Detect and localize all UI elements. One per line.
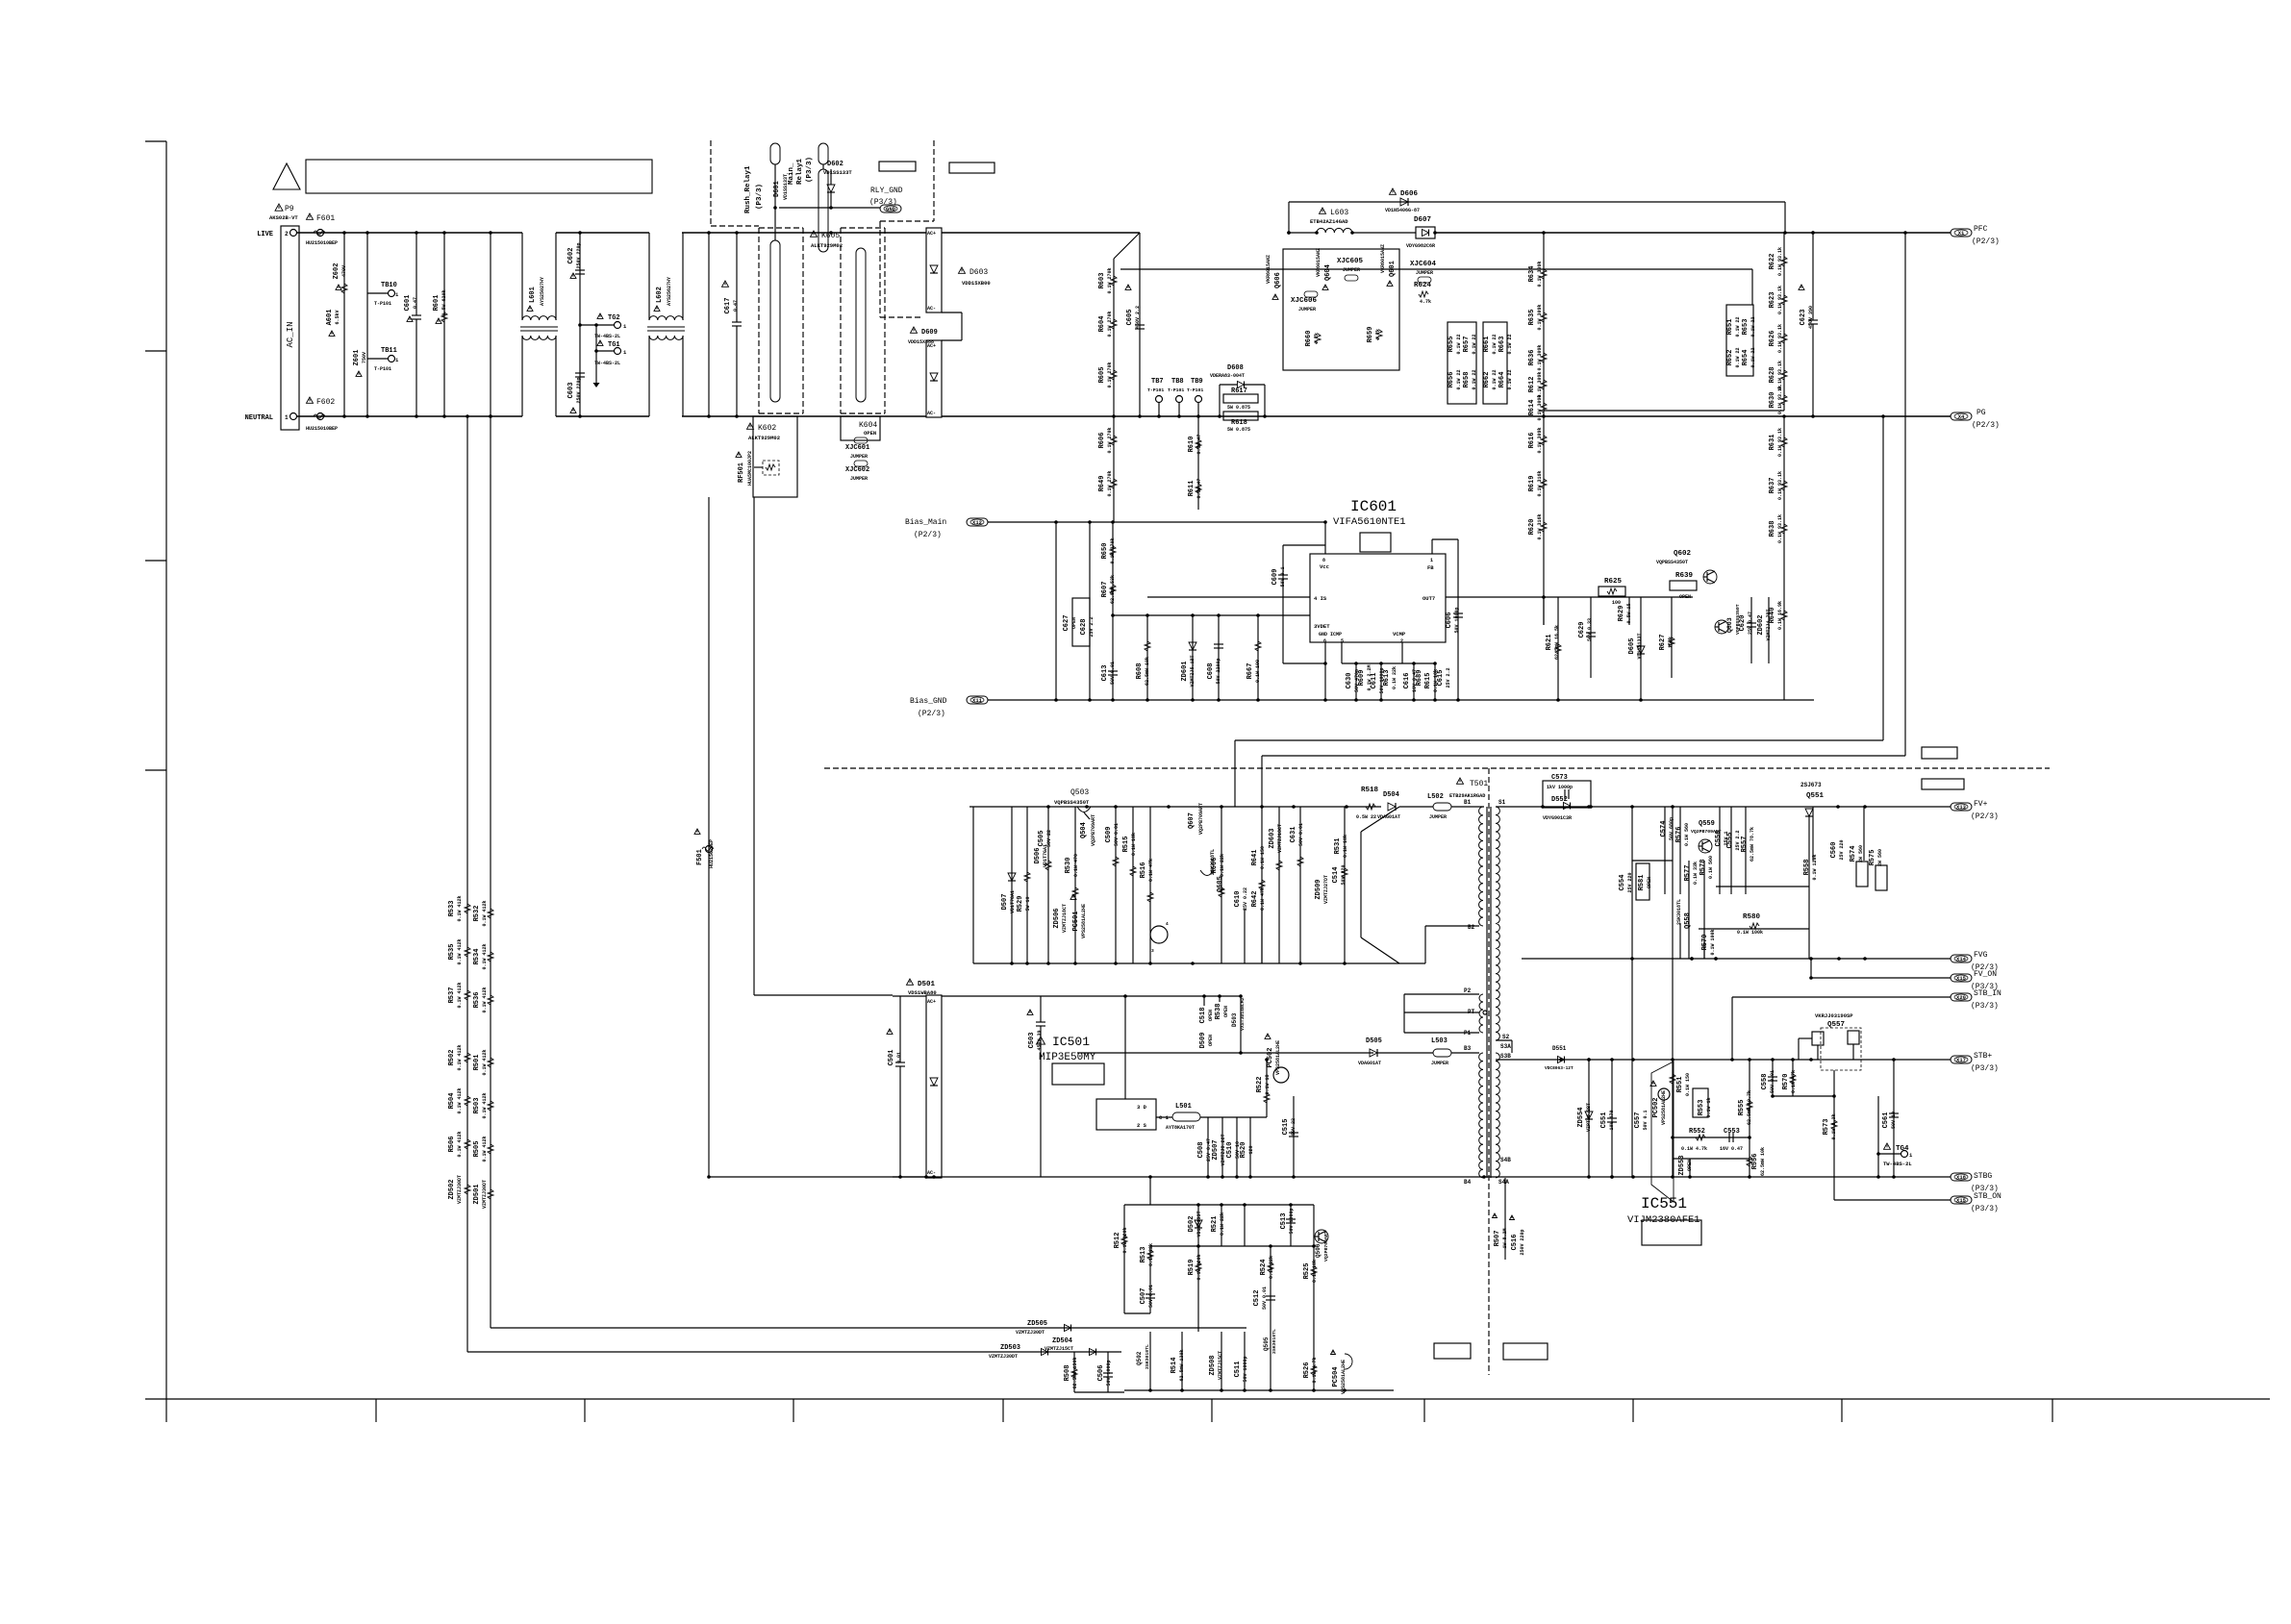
svg-text:A601: A601	[326, 310, 334, 326]
svg-text:ZD501: ZD501	[473, 1184, 481, 1204]
svg-text:0.1W 150: 0.1W 150	[1685, 1073, 1691, 1096]
svg-text:4 IS: 4 IS	[1314, 595, 1327, 602]
svg-text:0.1W 316k: 0.1W 316k	[1537, 470, 1543, 496]
svg-text:2SK3018TL: 2SK3018TL	[1676, 899, 1682, 925]
svg-text:R503: R503	[473, 1098, 481, 1114]
svg-text:ZD507: ZD507	[1212, 1139, 1220, 1160]
svg-text:Q601: Q601	[1389, 261, 1397, 277]
svg-text:VZPT26.2BT: VZPT26.2BT	[1586, 1103, 1592, 1132]
svg-text:25V 220: 25V 220	[1839, 839, 1845, 860]
svg-text:MIP3E50MY: MIP3E50MY	[1039, 1052, 1096, 1063]
svg-text:250V 220p: 250V 220p	[1520, 1229, 1525, 1255]
svg-text:R625: R625	[1604, 578, 1623, 586]
svg-text:50V 2200p: 50V 2200p	[1216, 658, 1221, 684]
svg-text:VQ2PB709ART: VQ2PB709ART	[1091, 814, 1096, 846]
svg-text:ETB42AZ14GAD: ETB42AZ14GAD	[1310, 218, 1348, 225]
svg-text:TB11: TB11	[381, 347, 397, 355]
svg-text:R609: R609	[1358, 670, 1366, 687]
svg-text:IC601: IC601	[1350, 498, 1397, 515]
svg-text:R652: R652	[1726, 350, 1734, 366]
svg-text:(P2/3): (P2/3)	[918, 710, 945, 718]
svg-text:0.1W 22: 0.1W 22	[1750, 347, 1756, 367]
svg-text:0.1W 47k: 0.1W 47k	[1260, 887, 1266, 911]
svg-text:C611: C611	[1371, 673, 1378, 689]
svg-text:R634: R634	[1528, 266, 1536, 283]
svg-text:STB+: STB+	[1974, 1052, 1992, 1061]
svg-text:50V 0.01: 50V 0.01	[1114, 823, 1120, 846]
svg-text:FVG: FVG	[1974, 951, 1988, 960]
svg-text:JUMPER: JUMPER	[1416, 270, 1433, 276]
svg-text:50V 220: 50V 220	[1341, 864, 1347, 885]
svg-text:R573: R573	[1823, 1119, 1830, 1136]
svg-text:X20: X20	[1956, 994, 1966, 1001]
svg-text:R557: R557	[1741, 837, 1749, 853]
svg-text:2SK3018TL: 2SK3018TL	[1271, 1329, 1277, 1354]
svg-text:R661: R661	[1483, 337, 1491, 353]
svg-text:R658: R658	[1463, 372, 1471, 388]
svg-text:F501: F501	[696, 849, 704, 865]
svg-text:R502: R502	[448, 1050, 456, 1066]
svg-text:50V 0.01: 50V 0.01	[1298, 823, 1304, 846]
svg-text:K604: K604	[859, 421, 877, 430]
svg-text:D507: D507	[1001, 894, 1009, 911]
svg-text:Q603: Q603	[1726, 617, 1733, 633]
svg-text:VD1T7GA1: VD1T7GA1	[1010, 890, 1016, 913]
svg-text:C507: C507	[1140, 1288, 1147, 1305]
svg-text:5W 0.875: 5W 0.875	[1227, 427, 1250, 433]
svg-text:AC_IN: AC_IN	[286, 321, 295, 347]
svg-text:0.1W 309k: 0.1W 309k	[1537, 261, 1543, 287]
svg-text:Main_: Main_	[788, 162, 795, 185]
svg-text:ZD603: ZD603	[1269, 828, 1276, 848]
svg-text:50V 1000p: 50V 1000p	[1243, 1356, 1248, 1382]
svg-text:TG1: TG1	[608, 341, 620, 349]
svg-text:50V 1000p: 50V 1000p	[1454, 607, 1460, 633]
svg-text:0.1W 316k: 0.1W 316k	[1537, 513, 1543, 539]
svg-text:R521: R521	[1211, 1216, 1219, 1233]
svg-text:0.1W 412k: 0.1W 412k	[482, 987, 488, 1012]
svg-text:ZD601: ZD601	[1181, 661, 1189, 681]
svg-text:5W 10: 5W 10	[1025, 896, 1031, 911]
svg-text:PFC: PFC	[1974, 225, 1988, 234]
svg-text:C617: C617	[724, 298, 732, 314]
svg-text:R579: R579	[1701, 935, 1709, 951]
svg-text:0.1W 270k: 0.1W 270k	[1107, 362, 1113, 387]
svg-text:F602: F602	[316, 398, 335, 407]
svg-text:C616: C616	[1403, 673, 1411, 689]
svg-text:C551: C551	[1600, 1112, 1608, 1129]
svg-text:R524: R524	[1260, 1260, 1268, 1276]
svg-text:16V 0.47: 16V 0.47	[1720, 1146, 1743, 1152]
svg-text:Bias_GND: Bias_GND	[910, 697, 947, 706]
svg-text:0.01: 0.01	[896, 1052, 902, 1063]
svg-text:R605: R605	[1098, 367, 1106, 384]
svg-text:D502: D502	[1188, 1216, 1196, 1233]
svg-text:0.1W 22: 0.1W 22	[1492, 369, 1498, 389]
svg-text:B3: B3	[1464, 1045, 1472, 1052]
svg-text:2: 2	[285, 231, 289, 237]
svg-text:R662: R662	[1483, 372, 1491, 388]
svg-text:Q503: Q503	[1070, 788, 1089, 797]
svg-text:Q606: Q606	[1274, 272, 1282, 288]
svg-text:0.1W 18: 0.1W 18	[1265, 1074, 1271, 1094]
svg-text:T-P101: T-P101	[1147, 387, 1164, 393]
svg-text:50V 22: 50V 22	[1291, 1118, 1297, 1136]
svg-text:Q605: Q605	[1217, 876, 1224, 892]
svg-text:Q551: Q551	[1806, 792, 1825, 800]
svg-text:C602: C602	[567, 248, 575, 264]
svg-text:RF501: RF501	[738, 462, 745, 483]
svg-text:IC551: IC551	[1641, 1195, 1687, 1212]
svg-text:C629: C629	[1578, 622, 1586, 638]
svg-text:0.1W 22: 0.1W 22	[1472, 369, 1477, 389]
svg-text:0.1W 560: 0.1W 560	[1708, 856, 1714, 879]
svg-text:C605: C605	[1126, 310, 1134, 326]
svg-text:Z601: Z601	[353, 350, 361, 366]
svg-text:0.47: 0.47	[413, 297, 418, 309]
svg-text:Q558: Q558	[1684, 912, 1692, 929]
svg-text:OPEN: OPEN	[1208, 1035, 1214, 1046]
svg-text:50V 0.01: 50V 0.01	[1148, 1285, 1154, 1308]
svg-text:R657: R657	[1463, 337, 1471, 353]
svg-text:D609: D609	[921, 329, 938, 337]
svg-text:TB7: TB7	[1151, 378, 1164, 386]
svg-text:0.1W 93.1k: 0.1W 93.1k	[1777, 428, 1783, 457]
svg-text:50V 1000p: 50V 1000p	[1289, 1208, 1295, 1234]
svg-text:R604: R604	[1098, 316, 1106, 333]
svg-text:ZD602: ZD602	[1757, 614, 1765, 635]
svg-text:D601: D601	[773, 181, 781, 197]
svg-text:VKR6015ANZ: VKR6015ANZ	[1266, 255, 1271, 284]
svg-text:C553: C553	[1724, 1128, 1740, 1136]
svg-text:TB10: TB10	[381, 282, 397, 289]
svg-text:62.5mW 10k: 62.5mW 10k	[1145, 657, 1150, 686]
svg-text:R627: R627	[1659, 635, 1667, 651]
svg-text:150k: 150k	[1668, 637, 1674, 648]
svg-text:S2: S2	[1502, 1034, 1510, 1040]
svg-text:5W 0.875: 5W 0.875	[1227, 405, 1250, 411]
svg-text:Vcc: Vcc	[1320, 563, 1329, 570]
svg-text:R656: R656	[1448, 372, 1455, 388]
svg-text:C628: C628	[1080, 619, 1088, 636]
svg-text:2 S: 2 S	[1137, 1122, 1147, 1129]
svg-text:R520: R520	[1240, 1142, 1247, 1159]
svg-text:D551: D551	[1552, 1045, 1567, 1052]
svg-text:R618: R618	[1231, 419, 1247, 427]
svg-text:0.1W 412k: 0.1W 412k	[482, 900, 488, 926]
svg-text:OPEN: OPEN	[864, 430, 876, 437]
svg-text:OPEN: OPEN	[1687, 1160, 1693, 1171]
svg-text:TB8: TB8	[1171, 378, 1184, 386]
svg-text:Relay1: Relay1	[796, 158, 804, 185]
svg-text:50V 0.1: 50V 0.1	[1280, 566, 1286, 587]
svg-text:L603: L603	[1330, 209, 1348, 217]
svg-text:250V 220p: 250V 220p	[576, 242, 582, 268]
svg-text:0.1W 412k: 0.1W 412k	[457, 982, 463, 1008]
svg-text:R608: R608	[1136, 663, 1144, 680]
svg-text:R659: R659	[1367, 327, 1374, 343]
svg-text:0.1W 33k: 0.1W 33k	[1693, 862, 1699, 885]
svg-text:2SJ673: 2SJ673	[1800, 782, 1822, 788]
svg-text:0.1W 100k: 0.1W 100k	[1710, 929, 1716, 955]
svg-text:62.5mW 10k: 62.5mW 10k	[1760, 1147, 1766, 1176]
svg-text:X15: X15	[1956, 975, 1967, 982]
svg-text:C603: C603	[567, 383, 575, 399]
svg-text:C503: C503	[1028, 1033, 1036, 1049]
svg-text:VZMTZJ5.1BT: VZMTZJ5.1BT	[1190, 655, 1196, 687]
svg-text:62.5mW 78.7k: 62.5mW 78.7k	[1750, 827, 1755, 862]
svg-text:VQ2PB709ART: VQ2PB709ART	[1323, 1231, 1329, 1262]
svg-text:L501: L501	[1175, 1103, 1192, 1111]
svg-text:R501: R501	[473, 1055, 481, 1071]
svg-text:VDYG982C6R: VDYG982C6R	[1406, 243, 1435, 249]
svg-text:AC+: AC+	[927, 231, 936, 237]
svg-text:R506: R506	[448, 1137, 456, 1153]
svg-text:OPEN: OPEN	[1647, 877, 1652, 888]
svg-text:0.1W 309k: 0.1W 309k	[1537, 427, 1543, 453]
svg-text:R606: R606	[1098, 433, 1106, 449]
svg-text:Q602: Q602	[1674, 550, 1692, 558]
svg-text:62.5mW 16.5k: 62.5mW 16.5k	[1554, 625, 1560, 660]
svg-text:VZMTZJ15CT: VZMTZJ15CT	[1218, 1351, 1223, 1380]
svg-text:25V 2.2: 25V 2.2	[1446, 667, 1451, 687]
svg-text:VD1T7GA1: VD1T7GA1	[1043, 844, 1048, 867]
svg-text:VZMTZJ30DT: VZMTZJ30DT	[989, 1354, 1018, 1360]
svg-text:ZD503: ZD503	[1000, 1344, 1020, 1352]
svg-text:1: 1	[285, 414, 289, 421]
svg-text:IC501: IC501	[1052, 1035, 1090, 1049]
svg-text:GND: GND	[886, 206, 896, 212]
svg-text:ZD505: ZD505	[1027, 1320, 1047, 1328]
svg-text:R581: R581	[1638, 875, 1646, 891]
svg-text:C574: C574	[1660, 821, 1668, 837]
svg-text:R651: R651	[1726, 319, 1734, 336]
svg-text:10V 470: 10V 470	[1609, 1110, 1615, 1130]
svg-text:0.1W 22: 0.1W 22	[1735, 316, 1741, 337]
svg-text:0.1W 22: 0.1W 22	[1456, 334, 1462, 354]
svg-text:VZMTZJ18CT: VZMTZJ18CT	[1277, 824, 1283, 853]
svg-text:C608: C608	[1207, 663, 1215, 680]
svg-text:0.1W 309k: 0.1W 309k	[1537, 304, 1543, 330]
svg-text:0.5W 15: 0.5W 15	[1626, 603, 1632, 623]
svg-text:RLY_GND: RLY_GND	[870, 187, 903, 195]
svg-text:0.1W 100: 0.1W 100	[1255, 660, 1261, 683]
svg-text:R664: R664	[1498, 372, 1506, 388]
svg-text:AYS25627HY: AYS25627HY	[667, 277, 672, 306]
svg-text:D552: D552	[1551, 796, 1568, 804]
svg-text:VIFA5610NTE1: VIFA5610NTE1	[1333, 516, 1406, 528]
svg-text:0.1W 22k: 0.1W 22k	[1220, 1212, 1225, 1236]
svg-text:VD1SS133T: VD1SS133T	[1196, 1211, 1202, 1237]
svg-text:R630: R630	[1769, 392, 1776, 409]
svg-text:R629: R629	[1618, 606, 1625, 622]
svg-text:R637: R637	[1769, 478, 1776, 494]
svg-text:R505: R505	[473, 1141, 481, 1158]
svg-text:R667: R667	[1246, 663, 1254, 680]
svg-text:D603: D603	[969, 268, 988, 277]
svg-text:C508: C508	[1197, 1142, 1205, 1159]
svg-text:0.1W 412k: 0.1W 412k	[457, 1131, 463, 1157]
svg-text:VZMTZJ30DT: VZMTZJ30DT	[1016, 1330, 1045, 1336]
svg-text:0.1W 412k: 0.1W 412k	[457, 1087, 463, 1113]
svg-text:ZD504: ZD504	[1052, 1337, 1072, 1345]
svg-text:AKS02B-VT: AKS02B-VT	[269, 214, 298, 221]
svg-text:0.1W 93.1k: 0.1W 93.1k	[1777, 324, 1783, 353]
svg-text:JUMPER: JUMPER	[850, 476, 868, 482]
svg-text:L502: L502	[1427, 793, 1444, 801]
svg-text:C560: C560	[1830, 842, 1838, 859]
svg-text:R613: R613	[1383, 670, 1391, 687]
svg-text:L503: L503	[1431, 1037, 1448, 1045]
svg-text:D605: D605	[1628, 638, 1636, 655]
svg-text:0.1W 470: 0.1W 470	[1073, 854, 1079, 877]
svg-text:0.1W 412k: 0.1W 412k	[482, 1049, 488, 1075]
svg-text:C513: C513	[1280, 1213, 1288, 1230]
svg-text:X4: X4	[1958, 413, 1965, 420]
svg-text:6.5kV: 6.5kV	[335, 310, 340, 324]
svg-text:VKR6015ANZ: VKR6015ANZ	[1316, 248, 1322, 277]
svg-text:3 D: 3 D	[1137, 1104, 1147, 1111]
svg-text:OPEN: OPEN	[1071, 617, 1077, 629]
svg-text:X1: X1	[1958, 230, 1965, 237]
svg-text:X17: X17	[1956, 1057, 1966, 1063]
svg-text:JUMPER: JUMPER	[1431, 1061, 1448, 1066]
svg-text:AC-: AC-	[927, 411, 936, 416]
svg-text:D607: D607	[1414, 216, 1431, 224]
svg-text:R636: R636	[1528, 350, 1536, 366]
svg-text:TB9: TB9	[1191, 378, 1203, 386]
svg-text:AC-: AC-	[927, 306, 936, 312]
svg-text:X18: X18	[1956, 1174, 1967, 1181]
svg-text:AYT8KA170T: AYT8KA170T	[1166, 1125, 1195, 1131]
svg-text:XJC601: XJC601	[845, 444, 869, 452]
svg-text:T-P101: T-P101	[374, 301, 391, 307]
svg-text:50V 0.01: 50V 0.01	[1110, 662, 1116, 685]
svg-text:D608: D608	[1227, 364, 1244, 372]
svg-text:R504: R504	[448, 1093, 456, 1110]
svg-text:ZD509: ZD509	[1315, 879, 1322, 899]
svg-text:VZMTZJ15CT: VZMTZJ15CT	[1045, 1346, 1073, 1352]
svg-text:OPEN: OPEN	[1208, 1010, 1214, 1021]
svg-text:VDAG01AT: VDAG01AT	[1358, 1061, 1381, 1066]
svg-text:R553: R553	[1698, 1100, 1705, 1116]
svg-text:0.1W 22: 0.1W 22	[1507, 369, 1513, 389]
svg-text:D501: D501	[918, 981, 936, 988]
svg-text:0.1W 22: 0.1W 22	[1735, 347, 1741, 367]
svg-text:R514: R514	[1171, 1358, 1178, 1374]
svg-text:R653: R653	[1742, 319, 1750, 336]
svg-text:R526: R526	[1303, 1362, 1311, 1379]
svg-text:50V 680p: 50V 680p	[1669, 817, 1674, 840]
svg-text:R574: R574	[1850, 846, 1857, 862]
svg-text:R538: R538	[1215, 1004, 1222, 1020]
svg-text:0.1W 150: 0.1W 150	[1260, 846, 1266, 869]
svg-text:C516: C516	[1511, 1235, 1519, 1251]
svg-text:R601: R601	[433, 295, 441, 312]
svg-text:C615: C615	[1437, 670, 1445, 687]
svg-text:X13: X13	[1956, 804, 1967, 811]
svg-text:0.1W 3.3k: 0.1W 3.3k	[1831, 1113, 1837, 1139]
svg-text:VCMP: VCMP	[1393, 631, 1406, 637]
svg-text:ZD502: ZD502	[448, 1179, 456, 1199]
svg-text:VZMTZJ27DT: VZMTZJ27DT	[1323, 875, 1329, 904]
svg-text:JUMPER: JUMPER	[850, 454, 868, 460]
svg-text:(P3/3): (P3/3)	[1971, 1205, 1999, 1213]
svg-text:R558: R558	[1803, 860, 1811, 876]
svg-text:OPEN: OPEN	[1679, 594, 1691, 600]
svg-text:3VDET: 3VDET	[1314, 623, 1330, 630]
svg-text:0.1W 412k: 0.1W 412k	[457, 895, 463, 921]
svg-text:R603: R603	[1098, 273, 1106, 289]
svg-text:AC-: AC-	[927, 1170, 936, 1176]
svg-text:S4B: S4B	[1500, 1157, 1511, 1163]
svg-text:Rush_Relay1: Rush_Relay1	[744, 165, 752, 213]
svg-text:VKR6015ANZ: VKR6015ANZ	[1380, 244, 1386, 273]
svg-text:R518: R518	[1361, 787, 1379, 794]
svg-text:Q559: Q559	[1699, 820, 1715, 828]
svg-text:STBG: STBG	[1974, 1172, 1992, 1181]
svg-text:R620: R620	[1528, 519, 1536, 536]
svg-text:NEUTRAL: NEUTRAL	[245, 414, 273, 422]
svg-text:C555: C555	[1726, 833, 1734, 849]
svg-text:R614: R614	[1528, 400, 1536, 416]
svg-text:R617: R617	[1231, 387, 1247, 395]
svg-text:25V 220: 25V 220	[1627, 872, 1633, 892]
svg-text:C561: C561	[1882, 1112, 1890, 1129]
svg-text:F601: F601	[316, 214, 335, 223]
svg-text:PG: PG	[1976, 409, 1986, 417]
svg-text:0.1W 412k: 0.1W 412k	[482, 1092, 488, 1118]
svg-text:PC502: PC502	[1652, 1097, 1660, 1117]
svg-text:R621: R621	[1546, 635, 1553, 651]
svg-text:PC504: PC504	[1332, 1366, 1340, 1387]
svg-text:0.1W 270k: 0.1W 270k	[1107, 470, 1113, 496]
svg-text:ZD506: ZD506	[1053, 908, 1061, 928]
svg-text:R508: R508	[1064, 1365, 1071, 1382]
svg-text:R513: R513	[1140, 1247, 1147, 1263]
svg-text:0.1W 4.7k: 0.1W 4.7k	[1681, 1146, 1707, 1152]
svg-text:0.1W 270k: 0.1W 270k	[1107, 311, 1113, 337]
svg-text:T-P101: T-P101	[1168, 387, 1184, 393]
svg-text:TG2: TG2	[608, 314, 620, 322]
svg-text:X14: X14	[1956, 956, 1967, 962]
svg-text:(P3/3): (P3/3)	[1971, 1064, 1999, 1073]
svg-text:25V 0.47: 25V 0.47	[1748, 612, 1753, 635]
svg-text:AC+: AC+	[927, 999, 936, 1005]
svg-text:C627: C627	[1063, 615, 1070, 632]
svg-text:VD1SS133T: VD1SS133T	[823, 169, 852, 176]
svg-text:C515: C515	[1282, 1119, 1290, 1136]
svg-text:0.1W 309k: 0.1W 309k	[1537, 344, 1543, 370]
svg-text:R522: R522	[1256, 1077, 1264, 1093]
svg-text:4: 4	[1166, 921, 1169, 927]
svg-text:C609: C609	[1271, 569, 1279, 586]
svg-text:62.5mW 130k: 62.5mW 130k	[1179, 1349, 1185, 1381]
svg-text:0.1W 412k: 0.1W 412k	[482, 943, 488, 969]
svg-text:(P3/3): (P3/3)	[806, 157, 814, 183]
svg-text:TW-4BS-2L: TW-4BS-2L	[594, 334, 620, 339]
svg-text:0.1W 412k: 0.1W 412k	[457, 1044, 463, 1070]
svg-text:R555: R555	[1738, 1100, 1746, 1116]
svg-text:0.1W 270k: 0.1W 270k	[1110, 537, 1116, 563]
svg-text:0.1W 22: 0.1W 22	[1507, 334, 1513, 354]
svg-text:3: 3	[1151, 948, 1154, 954]
svg-text:FB: FB	[1427, 564, 1434, 571]
svg-text:D606: D606	[1400, 190, 1419, 198]
svg-text:D504: D504	[1383, 791, 1399, 799]
svg-text:Q607: Q607	[1188, 812, 1196, 829]
svg-text:2SK3018TL: 2SK3018TL	[1210, 849, 1216, 875]
